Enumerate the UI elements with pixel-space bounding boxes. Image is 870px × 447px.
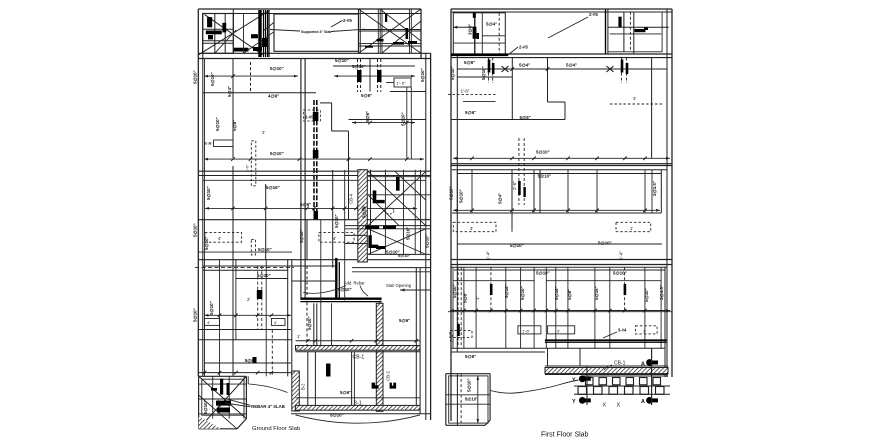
svg-text:5@10": 5@10" [450,66,455,80]
svg-text:Y: Y [572,399,576,405]
big bottom arc [296,415,421,423]
svg-text:5@10": 5@10" [257,273,271,278]
label 2-#5 mid dashed box [303,110,320,121]
left mid dark rebar bundle [313,100,319,220]
svg-text:1'-4": 1'-4" [619,251,624,260]
svg-text:5@10": 5@10" [401,112,406,126]
X-box bent rebar glyphs [365,177,399,249]
left bracket boxes lower [205,319,286,326]
right plan band y259-264 [451,260,672,265]
svg-text:2-#5: 2-#5 [519,45,528,50]
svg-text:1'-6": 1'-6" [522,328,531,333]
svg-text:REBAR 4" SLAB: REBAR 4" SLAB [251,404,285,409]
right plan text labels [449,22,665,402]
X-box rotated labels [362,205,411,258]
left dashed rect 2-0 row2 [246,141,256,186]
svg-text:5@10": 5@10" [204,236,209,250]
svg-text:5@10": 5@10" [398,253,411,258]
right top-right block [606,9,669,54]
svg-text:X: X [603,403,607,409]
label 2-#5 top right [331,18,352,27]
svg-text:Add. Rebar: Add. Rebar [344,281,365,286]
dimension tick marks right plan [462,67,647,312]
hatch band CB-4 [358,170,368,262]
svg-text:5@10": 5@10" [193,70,198,84]
svg-text:5@10": 5@10" [209,301,214,315]
label 2-#5 mid leader [508,45,528,56]
left plan outer border [198,9,430,420]
svg-text:5@10": 5@10" [258,247,272,252]
supported slab white box [274,14,359,51]
svg-text:5@10": 5@10" [459,189,464,203]
svg-text:A: A [641,362,645,368]
svg-text:5@16": 5@16" [504,284,509,298]
left plan band y166-180 [198,171,430,180]
left plan text labels [193,58,430,418]
svg-text:5@10": 5@10" [536,271,550,276]
left plan mid rows lines [195,207,431,272]
left plan dashed rebar verticals row1 [233,59,382,92]
bent rebar glyphs lower [326,364,396,389]
hatch band B-2 [292,371,300,411]
left top band middle column [233,9,292,57]
svg-text:Y: Y [572,378,576,384]
svg-text:1': 1' [297,334,300,339]
svg-text:CB-4: CB-4 [349,193,354,204]
svg-text:5@16": 5@16" [554,286,559,300]
svg-text:4': 4' [207,320,210,325]
svg-text:3': 3' [470,226,473,231]
svg-text:2'-4": 2'-4" [449,333,454,342]
svg-text:1'-4": 1'-4" [486,251,491,260]
svg-text:5@10": 5@10" [598,241,612,246]
caption first floor slab [541,432,589,439]
svg-text:5@6": 5@6" [340,390,351,395]
svg-text:5@10": 5@10" [465,397,479,402]
svg-text:5@10": 5@10" [270,66,284,71]
svg-text:A: A [641,399,645,405]
svg-text:First Floor Slab: First Floor Slab [541,432,589,439]
svg-text:5@10": 5@10" [203,400,208,414]
svg-text:5@10": 5@10" [193,223,198,237]
right plan band y158-165 [451,157,672,166]
svg-text:5@16": 5@16" [266,185,280,190]
svg-text:5@4": 5@4" [486,22,497,27]
svg-text:5@10": 5@10" [613,271,627,276]
svg-text:3': 3' [643,328,646,333]
small dim box 1-6 [386,78,411,87]
svg-text:5@10": 5@10" [330,413,344,418]
label B-1 [354,400,362,406]
left bracket 1-4 row2 [204,140,233,147]
right hatch band CB-1 [545,366,668,375]
svg-text:3@4.5": 3@4.5" [659,285,664,300]
svg-text:B-2: B-2 [301,383,306,390]
svg-text:CB-1: CB-1 [614,361,626,367]
right dashed dim boxes [453,222,650,231]
svg-text:5@4": 5@4" [497,193,502,204]
wavy connection line [491,380,579,393]
right thick beam line [545,340,667,342]
caption ground floor slab [252,426,301,432]
svg-text:5@10": 5@10" [210,72,215,86]
svg-text:5@10": 5@10" [420,68,425,82]
svg-text:5@6": 5@6" [465,110,476,115]
left top-left block [199,11,269,55]
svg-text:5@6": 5@6" [217,399,222,410]
section letters [572,362,645,409]
svg-text:5@10": 5@10" [449,186,454,200]
dimension tick marks left plan [203,74,418,374]
svg-text:5@6": 5@6" [399,318,410,323]
svg-text:5@10": 5@10" [352,64,366,69]
svg-text:5@10": 5@10" [193,308,198,322]
svg-text:5@10": 5@10" [510,243,524,248]
svg-text:CB-2: CB-2 [386,370,391,381]
svg-text:3@4": 3@4" [468,24,473,35]
label CB-4 [349,193,354,204]
right plan block y170-213 [452,138,667,232]
right top band bottom double [451,54,672,58]
svg-text:5@10": 5@10" [307,316,312,330]
right plan line y244 [457,244,662,248]
svg-text:5@10": 5@10" [644,288,649,302]
svg-text:2': 2' [247,297,250,302]
left X-box right [345,170,431,255]
svg-text:5@10": 5@10" [452,284,457,298]
svg-text:5@8": 5@8" [567,289,572,300]
door swing arc [248,376,287,392]
svg-text:3': 3' [557,328,560,333]
svg-text:5@10": 5@10" [299,229,304,243]
label B-2 [301,383,306,390]
label 2-#5 right top with long leader [548,12,598,38]
svg-text:5@10": 5@10" [538,174,552,179]
left dashed dim boxes 4ft [205,232,354,242]
svg-text:5@6": 5@6" [245,358,256,363]
section comb structure [574,376,670,394]
left plan row1 lines [203,75,426,220]
svg-text:Ground Floor Slab: Ground Floor Slab [252,426,301,432]
bottom-left block rebar marks [211,379,231,413]
label CB-2 [386,370,391,381]
stair walls thick [300,258,381,302]
svg-text:1'-6": 1'-6" [461,89,470,94]
svg-text:5@10": 5@10" [206,186,211,200]
svg-text:5@10": 5@10" [362,205,367,218]
svg-text:5@4": 5@4" [566,63,577,68]
svg-text:3-#4: 3-#4 [618,327,627,332]
svg-text:5@10": 5@10" [335,58,349,63]
svg-text:5@10": 5@10" [425,234,430,248]
svg-text:4': 4' [333,236,336,241]
right plan outer border [451,9,672,421]
svg-text:5@10": 5@10" [270,151,284,156]
right bottom-left block [446,374,490,426]
svg-text:1'-4": 1'-4" [205,142,213,146]
svg-text:5@16": 5@16" [405,227,410,240]
svg-text:5@16": 5@16" [594,286,599,300]
hatch band CB-2 [376,303,383,411]
hatch band B-1 [291,398,431,414]
svg-text:5@4": 5@4" [519,63,530,68]
svg-text:5@16": 5@16" [481,66,486,80]
svg-text:2-#5: 2-#5 [343,18,352,23]
svg-text:5@6": 5@6" [365,111,370,122]
add rebar leader curve [303,286,368,297]
svg-text:5@10": 5@10" [334,214,339,228]
svg-text:5@6": 5@6" [464,60,475,65]
svg-text:2': 2' [262,130,265,135]
left rooms y266-336 lines [198,270,291,372]
left top-right block rebar marks [365,14,417,48]
svg-text:1': 1' [475,297,480,300]
svg-text:5@6": 5@6" [300,202,311,207]
left plan row1 verticals [233,59,415,298]
svg-text:3@3.5": 3@3.5" [652,181,657,196]
svg-text:X: X [617,403,621,409]
svg-text:5@6": 5@6" [465,354,476,359]
svg-text:1'- 6": 1'- 6" [397,81,407,86]
right lines y348-352 [451,348,665,352]
svg-text:2-#5: 2-#5 [589,12,598,17]
right plan lower block [448,267,672,378]
svg-text:5@10": 5@10" [536,150,550,155]
right verticals to comb [548,348,581,366]
rebar slab leader lines [224,398,251,407]
svg-text:5@10": 5@10" [215,117,220,131]
svg-text:3': 3' [633,96,636,101]
right bracket boxes lower [450,326,657,338]
dashed rect 2-0 lower [251,239,255,255]
label CB-1 right [604,361,626,371]
svg-text:Stair Opening: Stair Opening [386,283,412,288]
bottom-left block [199,376,247,429]
label 2-#5 with leader [263,18,287,32]
verticals between beams [308,268,420,414]
svg-text:5@4": 5@4" [227,86,232,97]
svg-text:5@10": 5@10" [386,250,400,255]
hatch band CB-1 [296,341,421,352]
svg-text:Supported 4" Slab: Supported 4" Slab [301,30,331,34]
svg-text:2'-6": 2'-6" [512,181,517,190]
left plan mid verticals [205,59,345,376]
left plan top band bottom double line [198,53,430,58]
right top-left block rebar marks [473,13,479,39]
svg-text:5@8": 5@8" [463,292,468,303]
svg-text:5@6": 5@6" [520,115,531,120]
left rooms verticals y260-376 [220,260,292,376]
svg-text:5@10": 5@10" [520,286,525,300]
label rebar slab bold [251,404,285,409]
svg-text:5@10": 5@10" [338,287,352,292]
left top-right block [359,9,422,53]
svg-text:1': 1' [630,226,633,231]
stair region outline [203,220,431,346]
svg-text:4': 4' [274,320,277,325]
right plan row1 [448,58,667,159]
svg-text:5@8": 5@8" [232,120,237,131]
svg-text:5@10": 5@10" [467,378,472,392]
left top-left block rebar marks [206,17,257,51]
svg-text:4': 4' [218,236,221,241]
label CB-1 [353,355,365,361]
svg-text:2-#5: 2-#5 [305,115,314,120]
label Add Rebar [344,281,365,286]
svg-text:5@6": 5@6" [361,93,372,98]
section marker symbols [579,348,658,405]
label supported slab [270,29,365,34]
svg-text:4@6": 4@6" [268,94,279,99]
right top-left block [451,13,508,55]
label Stair Opening [386,283,412,288]
